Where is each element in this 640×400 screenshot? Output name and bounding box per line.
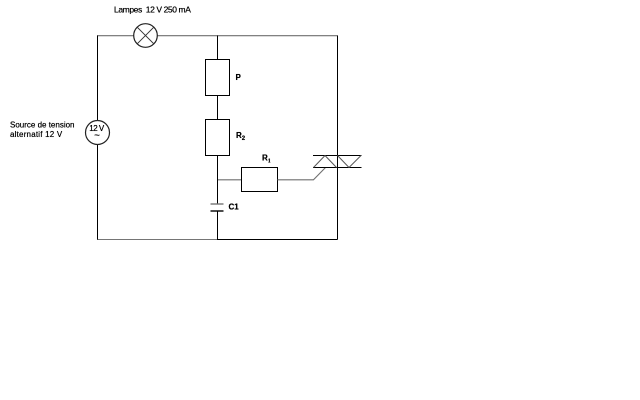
svg-text:~: ~ [94,131,100,142]
svg-text:C1: C1 [229,203,240,212]
svg-text:alternatif 12 V: alternatif 12 V [10,130,63,139]
svg-text:P: P [236,73,242,82]
svg-text:Source de tension: Source de tension [10,121,75,130]
svg-text:Lampes 12 V 250 mA: Lampes 12 V 250 mA [114,4,191,14]
